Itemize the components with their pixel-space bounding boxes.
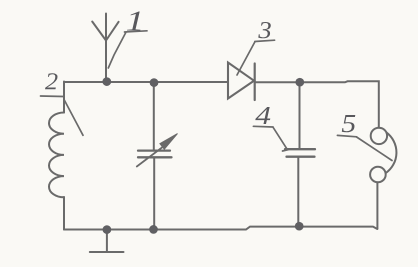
label 3 underline	[255, 40, 275, 41]
wire left vertical lower	[63, 197, 65, 230]
junction node top middle	[150, 78, 159, 87]
wire left vertical upper	[63, 82, 65, 113]
label 1 digit	[127, 12, 141, 31]
label 4 digit	[255, 107, 270, 124]
label 2 underline	[41, 95, 64, 98]
inductor L (coil, label 2)	[49, 113, 64, 198]
wire top left horizontal	[64, 81, 227, 83]
label 4 underline	[253, 125, 273, 128]
wire middle branch upper (to variable capacitor)	[153, 83, 155, 150]
label 5 underline	[337, 135, 356, 136]
label 3 digit	[258, 22, 271, 38]
label 5 leader line	[357, 137, 392, 161]
headphones headband arc	[386, 133, 397, 173]
headphones (label 5) top earpiece	[371, 128, 387, 144]
wire bottom horizontal	[64, 227, 377, 230]
junction node bottom right	[295, 222, 304, 231]
wire middle branch lower	[153, 158, 155, 230]
wire right branch upper (to capacitor 4)	[299, 82, 301, 148]
headphones bottom earpiece	[370, 167, 386, 183]
wire right vertical lower	[376, 182, 378, 228]
label 2 digit	[45, 73, 58, 89]
label 1 underline	[125, 31, 148, 32]
label 2 leader line	[64, 100, 83, 135]
diode VD (label 3) triangle	[228, 63, 254, 99]
junction node antenna/top wire	[102, 77, 111, 86]
ground	[90, 230, 124, 252]
label 1 leader line	[108, 33, 126, 69]
variable capacitor C1 plates	[138, 151, 172, 158]
capacitor C2 (label 4) plates	[285, 149, 315, 157]
variable capacitor C1 arrow	[137, 148, 162, 167]
diode VD cathode bar	[254, 64, 256, 101]
junction node bottom ground	[103, 225, 112, 234]
wire right branch lower	[297, 157, 299, 227]
wire top right horizontal	[256, 81, 379, 127]
junction node bottom middle	[149, 225, 158, 234]
antenna (label 1)	[92, 14, 118, 82]
label 4 leader line	[273, 127, 288, 151]
label 3 leader line	[237, 42, 255, 75]
variable capacitor arrowhead	[160, 134, 178, 150]
junction node top right	[295, 78, 304, 87]
label 5 digit	[342, 115, 356, 132]
